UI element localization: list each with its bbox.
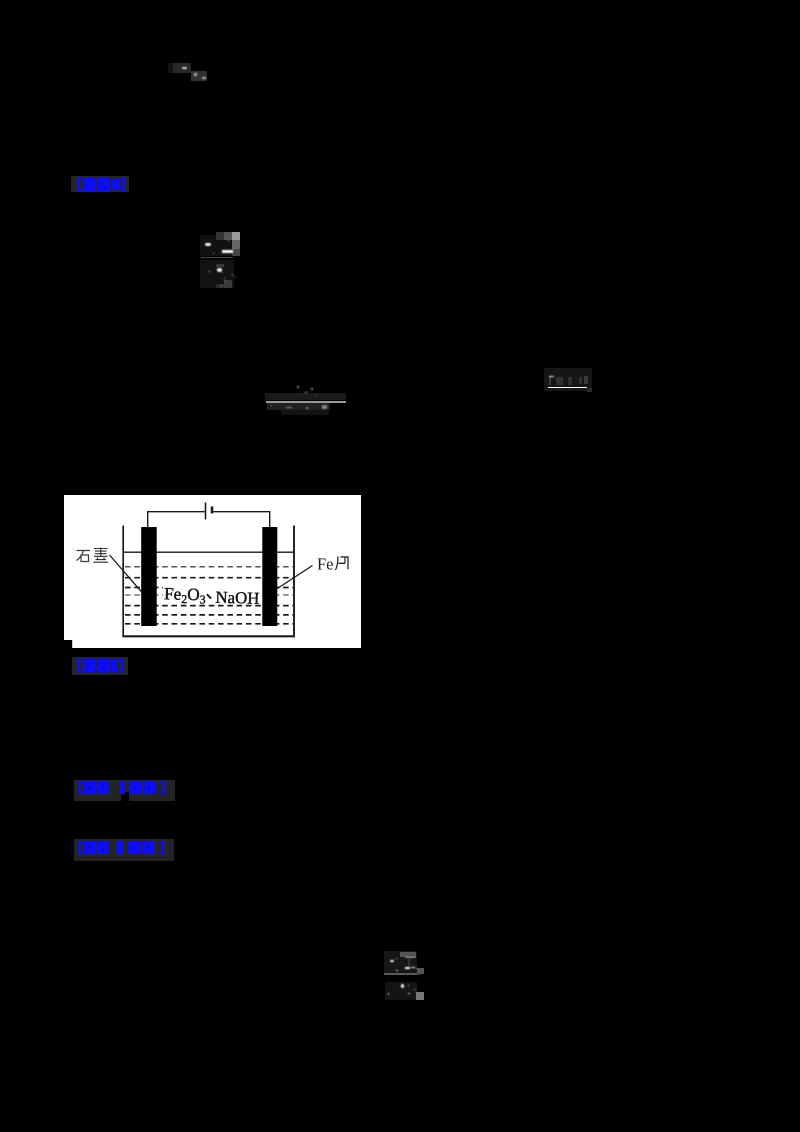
electrolyte text Fe2O3、NaOH [164,584,260,608]
right electrode (Fe sheet) [262,527,277,626]
F3 white dash [549,376,554,378]
battery B short plate [210,507,213,514]
F2 numerator specks [297,386,299,388]
F1 fraction bar [201,257,233,259]
formula F0 block A [168,63,173,73]
label box 【解析】 [72,657,128,676]
F1 numerator white marks [205,243,211,246]
blue text 2变式训练 [78,841,165,856]
pointer line to Fe sheet [277,566,312,589]
F4 numerator white marks [390,960,394,962]
diagram white box [64,495,361,648]
F4 denominator panel [385,982,416,1000]
label 石墨 [76,551,90,562]
F3 white underline [548,387,588,388]
liquid surface line [123,551,294,553]
formula F0 white blob A [182,67,187,69]
beaker bottom [122,635,295,637]
formula F1 numerator panel [200,235,235,256]
label box 【变式 1 训练】 [74,780,175,801]
wire right [213,512,269,528]
formula F4 numerator panel [384,951,417,973]
F2 denominator band [267,403,330,410]
beaker left wall [122,526,124,638]
pointer line to graphite [109,555,141,592]
F4 bottom-right gray block [416,992,424,1000]
F1 denominator white marks [217,268,222,272]
F2 denominator specks [271,405,273,407]
F1 gray block row [216,232,224,240]
F3 glyph fragments [549,376,551,385]
F1 denominator panel [200,260,235,289]
blue text 变式1训练 [78,781,166,796]
beaker right wall [293,526,295,638]
svg-text:Fe: Fe [317,555,334,574]
formula F2 numerator band [265,393,346,400]
formula F0 block B [191,71,207,81]
white background [64,495,361,648]
text background patch [163,581,262,600]
battery B long plate [204,503,206,520]
left electrode (graphite) [141,527,157,626]
formula F3 panel [544,368,592,391]
label box 【变式 2 训练】 [74,839,174,861]
dashed liquid lines [125,567,293,624]
blue text 答案 [77,177,126,193]
blue text 解析 [77,658,124,674]
svg-text:NaOH: NaOH [215,588,259,608]
label box 【答案】 [71,176,129,193]
wire left [147,512,204,528]
F4 fraction bar [384,973,417,974]
formula F0 white marks B [194,73,197,77]
black notch bottom-left [64,640,72,648]
F2 fraction bar [266,401,346,403]
F4 right gray block upper [417,968,425,974]
F4 denominator white marks [401,984,405,988]
